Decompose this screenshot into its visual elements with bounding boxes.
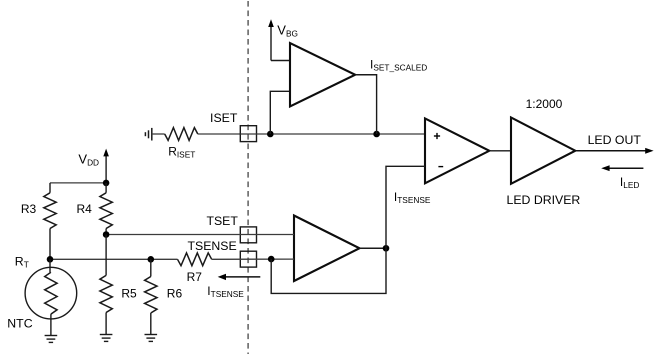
wire TSET node down to R5 (crosses TSENSE row) xyxy=(105,235,107,276)
wire VDD rail horizontal xyxy=(50,182,106,184)
pin TSET xyxy=(206,214,256,243)
pin ISET xyxy=(210,111,256,142)
svg-text:R3: R3 xyxy=(21,202,37,216)
ground (sideways, at R_ISET) xyxy=(145,128,151,141)
ground (below R5) xyxy=(100,335,113,342)
resistor R4 xyxy=(77,193,113,229)
svg-text:TSET: TSET xyxy=(206,214,238,228)
svg-text:NTC: NTC xyxy=(7,317,32,331)
svg-text:LED DRIVER: LED DRIVER xyxy=(507,193,581,207)
op-amp U1 (top, scaling amp) xyxy=(290,43,355,107)
label I_TSENSE (to comparator) xyxy=(394,190,431,205)
wire U4 output xyxy=(360,247,387,249)
wire R_ISET to ISET pin xyxy=(198,133,241,135)
wire R4 top xyxy=(105,183,107,193)
wire R6 bottom xyxy=(150,313,152,335)
wire TSENSE row left of R7 xyxy=(50,258,178,260)
wire main ISET node row xyxy=(256,133,425,135)
wire R6 top xyxy=(150,259,152,276)
power V_BG arrow xyxy=(268,19,298,38)
thermistor R_T / NTC xyxy=(7,255,76,336)
power V_DD arrow xyxy=(78,149,109,183)
wire U1 output to node B xyxy=(355,75,376,134)
wire U2 output to U3 xyxy=(489,150,511,152)
ground (below R6) xyxy=(145,335,158,342)
op-amp U4 (bottom, temp sense) xyxy=(294,216,360,282)
resistor R6 xyxy=(145,277,183,314)
junction TSENSE node xyxy=(268,256,275,263)
junction U4 output node xyxy=(383,245,390,252)
IC boundary dashed line xyxy=(247,1,249,354)
svg-text:R5: R5 xyxy=(121,286,137,300)
wire ground to R_ISET xyxy=(152,133,165,135)
resistor R7 xyxy=(178,253,212,284)
resistor R5 xyxy=(100,275,137,312)
wire U4 feedback loop xyxy=(271,248,386,293)
current arrow I_TSENSE (input) xyxy=(207,274,260,299)
svg-text:R7: R7 xyxy=(187,270,203,284)
node B junction xyxy=(373,131,380,138)
wire U1 lower input to node A xyxy=(270,91,290,134)
current arrow I_LED xyxy=(601,165,643,190)
comparator U2 xyxy=(425,118,489,183)
node A junction xyxy=(267,131,274,138)
wire R4 bottom to TSET row xyxy=(105,229,107,235)
label I_SET_SCALED xyxy=(370,58,427,73)
resistor R_ISET xyxy=(165,128,198,160)
junction VDD node xyxy=(103,180,110,187)
ground (below NTC) xyxy=(45,336,58,343)
junction R_T node xyxy=(47,256,54,263)
junction R6/TSENSE node xyxy=(148,256,155,263)
junction TSET node xyxy=(103,231,110,238)
wire TSET row xyxy=(106,234,294,236)
svg-text:R6: R6 xyxy=(167,286,183,300)
amplifier U3 LED driver xyxy=(507,97,581,207)
svg-text:R4: R4 xyxy=(77,202,93,216)
svg-text:ISET: ISET xyxy=(210,111,238,125)
svg-text:1:2000: 1:2000 xyxy=(526,97,563,111)
wire R3 top xyxy=(49,183,51,193)
wire R3 bottom xyxy=(49,229,51,260)
resistor R3 xyxy=(21,193,56,229)
wire LED OUT with arrowhead xyxy=(575,133,653,154)
svg-text:TSENSE: TSENSE xyxy=(187,239,236,253)
wire U4 output up to U2 minus input xyxy=(386,166,425,248)
wire TSENSE row right of R7 xyxy=(212,258,294,260)
wire R5 bottom xyxy=(105,313,107,335)
wire U1 upper input to VBG xyxy=(271,26,290,61)
svg-text:LED OUT: LED OUT xyxy=(588,133,642,147)
pin TSENSE xyxy=(187,239,256,267)
